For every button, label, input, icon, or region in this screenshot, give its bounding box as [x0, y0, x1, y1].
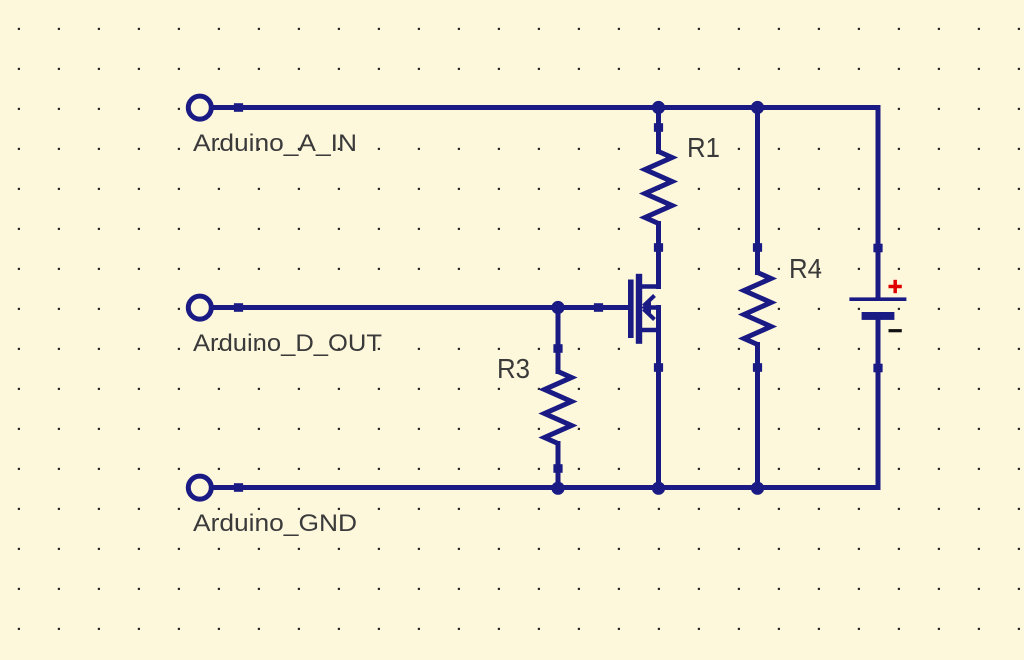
svg-text:R3: R3 [497, 353, 530, 384]
svg-text:Arduino_D_OUT: Arduino_D_OUT [193, 330, 382, 357]
svg-text:Arduino_GND: Arduino_GND [193, 510, 357, 537]
svg-text:R4: R4 [789, 253, 822, 284]
svg-text:Arduino_A_IN: Arduino_A_IN [193, 130, 357, 157]
svg-text:R1: R1 [687, 132, 720, 163]
